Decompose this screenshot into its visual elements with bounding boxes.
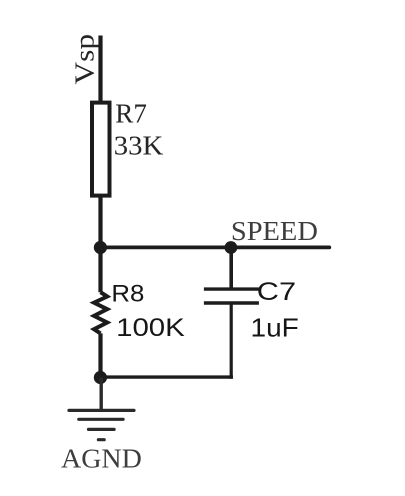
wire net SPEED [101,245,330,249]
svg-text:33K: 33K [114,130,164,160]
resistor R7 [92,103,110,196]
wire node 1 to R8 [98,248,102,293]
wire bottom node 3 to C7 branch [100,375,233,378]
resistor R8 [94,292,107,333]
svg-text:SPEED: SPEED [231,216,318,246]
svg-text:R8: R8 [111,281,144,308]
svg-text:Vsp: Vsp [70,34,100,85]
wire R7 to node 1 [98,196,102,248]
wire R8 to node 3 [98,333,102,377]
svg-text:R7: R7 [115,99,147,129]
wire node 2 to C7 [229,248,233,290]
svg-text:1uF: 1uF [251,313,299,343]
capacitor C7 [204,289,259,303]
junction node 3 [94,371,107,384]
svg-text:AGND: AGND [61,444,142,474]
svg-text:C7: C7 [257,278,296,306]
ground AGND [69,410,134,439]
junction node 1 [94,241,107,254]
svg-text:100K: 100K [116,314,185,342]
junction node 2 [225,241,238,254]
wire Vsp to R7 [98,36,102,104]
wire C7 to bottom wire [230,303,233,379]
wire node 3 to ground [99,378,102,411]
